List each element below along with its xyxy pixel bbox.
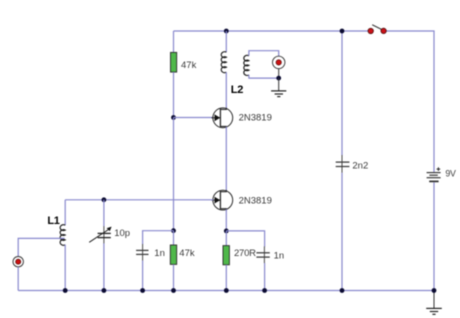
wire secondary top loop — [249, 51, 279, 57]
wire node B to R2 — [173, 231, 175, 246]
wire right column upper (to battery) — [433, 31, 435, 172]
resistor R3 270R — [223, 246, 229, 265]
terminal T1 (antenna input) — [13, 257, 23, 267]
junction dot C1 bottom rail — [140, 288, 145, 293]
wire gate2 horizontal (L1 top to Q2 gate) — [65, 199, 213, 201]
wire gate1 horizontal — [174, 117, 214, 119]
junction dot 10p bottom rail — [102, 288, 107, 293]
wire L1 tap to terminal T1 — [18, 238, 64, 256]
node B junction (R2/C1) — [171, 228, 176, 233]
transistor Q1 2N3819 — [212, 108, 233, 129]
wire L1 column bottom — [64, 245, 66, 291]
wire Q2 source to node D — [225, 209, 227, 231]
junction dot bottom-right rail — [432, 288, 437, 293]
resistor R2 47k — [170, 245, 176, 264]
wire column A (R1 to gate node) — [173, 72, 175, 117]
capacitor C4 2n2 — [336, 155, 350, 173]
capacitor C3 1n (right) — [256, 246, 269, 263]
junction dot 2n2 top rail — [340, 29, 345, 34]
inductor L2 secondary winding — [244, 55, 249, 75]
svg-text:9V: 9V — [445, 169, 456, 179]
wire right column lower (battery to bottom rail) — [433, 182, 435, 290]
switch SW1 — [368, 25, 386, 34]
wire column B (L2 to Q1 drain) — [225, 72, 227, 109]
svg-text:47k: 47k — [179, 248, 195, 259]
svg-text:1n: 1n — [274, 250, 285, 261]
svg-text:2N3819: 2N3819 — [239, 195, 272, 206]
resistor R1 47k — [171, 52, 177, 72]
capacitor C1 1n (left) — [136, 244, 148, 261]
wire column B top (rail to L2 primary) — [225, 31, 227, 52]
wire 10p column upper — [103, 200, 105, 227]
junction dot L2/transistor column top rail — [224, 29, 229, 34]
inductor L1 winding — [60, 225, 65, 245]
node C junction — [276, 76, 281, 81]
wire node B to C1 column — [143, 231, 174, 245]
svg-text:1n: 1n — [154, 248, 165, 259]
node D junction (R3/C3) — [224, 229, 229, 234]
svg-text:L2: L2 — [231, 84, 243, 96]
ground (bottom right) — [426, 291, 442, 314]
junction dot 2n2 bottom rail — [340, 288, 345, 293]
wire column A top (rail to R1) — [173, 31, 175, 53]
wire bottom rail — [18, 290, 434, 292]
wire C3 to bottom rail — [264, 263, 266, 291]
wire 2n2 column upper — [341, 31, 343, 155]
wire top rail left segment — [174, 30, 369, 32]
svg-text:47k: 47k — [181, 60, 197, 71]
wire secondary bottom loop — [249, 75, 279, 78]
wire R2 to bottom rail — [173, 264, 175, 290]
wire terminal T1 to bottom rail — [17, 267, 19, 291]
wire node D to C3 column — [226, 231, 264, 247]
wire node D to R3 — [225, 231, 227, 246]
wire C1 to bottom rail — [142, 261, 144, 291]
junction dot column B bottom rail — [224, 288, 229, 293]
svg-text:10p: 10p — [114, 228, 130, 239]
wire terminal T2 to node C — [278, 69, 280, 79]
wire 10p column lower — [103, 243, 105, 290]
wire top rail right segment — [386, 30, 435, 32]
svg-text:2n2: 2n2 — [352, 160, 368, 171]
capacitor C2 10p variable — [89, 227, 111, 243]
wire column A middle (gate node down to node B) — [173, 118, 175, 231]
node E junction (10p top) — [102, 197, 107, 202]
junction dot column A bottom rail — [171, 288, 176, 293]
transistor Q2 2N3819 — [212, 190, 233, 211]
junction dot L1 bottom rail — [63, 288, 68, 293]
ground (L2 secondary) — [271, 78, 286, 97]
svg-text:2N3819: 2N3819 — [239, 112, 272, 123]
svg-text:L1: L1 — [47, 215, 59, 227]
svg-text:270R: 270R — [234, 248, 256, 259]
battery B1 9V — [427, 167, 441, 181]
wire R3 to bottom rail — [225, 265, 227, 291]
wire Q1 source to Q2 drain — [225, 127, 227, 192]
inductor L2 primary winding — [221, 52, 226, 73]
junction dot C3 bottom rail — [262, 288, 267, 293]
wire 2n2 column lower — [341, 173, 343, 291]
node gate1 junction — [171, 115, 176, 120]
terminal T2 (output) — [273, 56, 285, 68]
wire L1 column top — [64, 200, 66, 225]
